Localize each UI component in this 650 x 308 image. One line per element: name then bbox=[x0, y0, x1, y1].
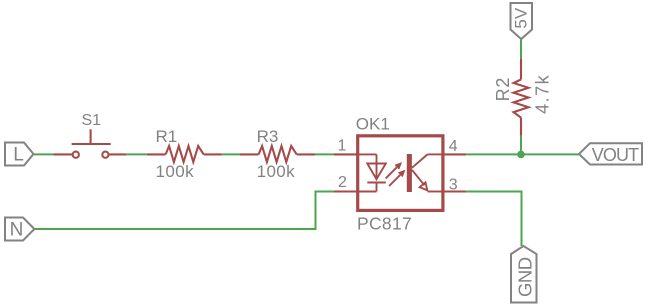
svg-text:N: N bbox=[10, 219, 24, 240]
svg-text:S1: S1 bbox=[82, 112, 102, 129]
svg-text:4: 4 bbox=[449, 138, 458, 155]
svg-text:R2: R2 bbox=[493, 77, 513, 102]
svg-text:2: 2 bbox=[338, 174, 347, 191]
svg-text:OK1: OK1 bbox=[356, 115, 390, 134]
svg-text:100k: 100k bbox=[257, 162, 296, 181]
svg-text:5V: 5V bbox=[512, 7, 531, 28]
svg-text:R1: R1 bbox=[156, 127, 178, 146]
svg-text:R3: R3 bbox=[257, 127, 279, 146]
svg-text:VOUT: VOUT bbox=[592, 145, 639, 165]
svg-text:100k: 100k bbox=[156, 162, 195, 181]
svg-text:4.7k: 4.7k bbox=[533, 74, 553, 114]
svg-text:1: 1 bbox=[338, 138, 347, 155]
svg-text:PC817: PC817 bbox=[357, 214, 412, 234]
svg-text:GND: GND bbox=[515, 257, 536, 297]
svg-text:L: L bbox=[13, 145, 24, 166]
svg-text:3: 3 bbox=[449, 176, 458, 193]
